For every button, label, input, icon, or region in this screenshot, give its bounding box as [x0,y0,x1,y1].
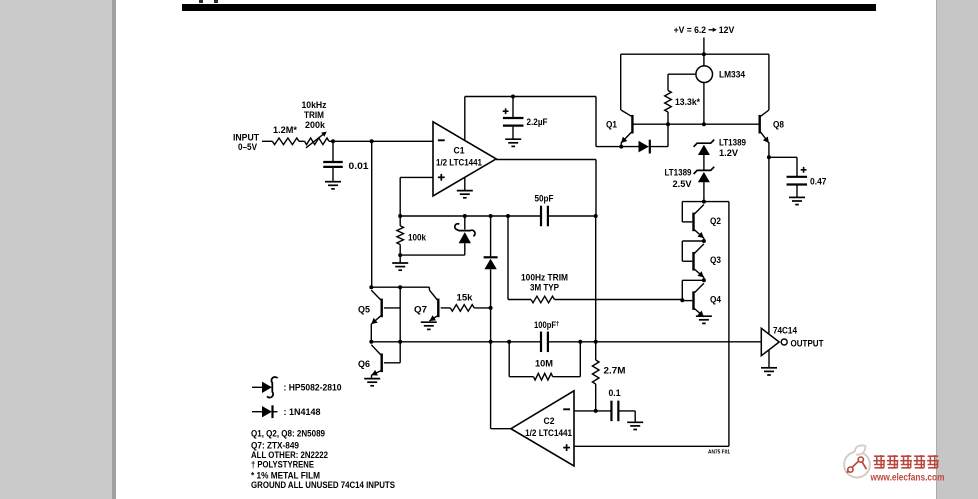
node 13.3k/base-rail junction [666,122,670,126]
capacitor 0.1 plates [611,401,618,422]
ground of Q7 [421,322,437,329]
ground of 0.1 [627,422,643,429]
wire 74C14 ground stub [768,350,770,368]
label 100k [408,232,427,242]
wire 100k top lead [399,216,401,226]
svg-text:C2: C2 [544,416,555,426]
node summing bus / C2 column junction [489,340,493,344]
svg-text:1/2 LTC1441: 1/2 LTC1441 [436,158,482,168]
node 10M left junction [507,340,511,344]
label AN75 F01 [708,450,730,456]
svg-text:0–5V: 0–5V [238,142,257,152]
ground of 74C14 [761,368,777,375]
resistor 13.3k* [665,91,672,113]
label 200k [305,120,326,130]
wire Q6 emitter stub [371,375,373,378]
resistor 1.2M* [272,138,299,145]
node bias bus left junction [398,214,402,218]
wire Q2 emitter to next [703,238,705,241]
resistor 100k [397,226,404,245]
node 0.01 junction [331,139,335,143]
watermark logo circle [844,445,870,477]
svg-text:2.2µF: 2.2µF [527,117,548,127]
ground of 0.01 [325,182,341,189]
svg-text:0.47: 0.47 [810,176,827,186]
wire 200k to C1 minus [329,140,433,142]
label 10M [535,359,553,369]
svg-text:10M: 10M [535,359,553,369]
wire 3M line left [508,299,531,301]
label Q5 [358,304,370,314]
wire C1-output column middle segment [595,216,597,342]
diode D3 1N4148 [484,257,498,269]
wire C2 output [491,428,511,430]
wire C1 ground stub [464,97,466,142]
wire 100k to D2 bottom [400,243,465,255]
wire 13.3k top lead [667,74,669,90]
label Q4 [710,295,721,305]
svg-text:3M TYP: 3M TYP [530,283,559,293]
node LM334/zener junction [702,122,706,126]
wire 2.2uF bottom lead [512,127,514,140]
transistor Q2 (diode-connected) [682,202,704,239]
wire 15k to D3 column [474,307,490,309]
svg-text:15k: 15k [457,293,474,303]
wire 3M column [507,216,509,300]
node input/Q5 junction [369,285,373,289]
svg-text:13.3k*: 13.3k* [675,97,700,107]
ground of C1 [457,191,473,198]
label + of 0.47 [801,167,807,173]
current source U2 LM334 body [696,66,713,83]
svg-text:LT1389: LT1389 [719,137,746,147]
header black rule [182,4,876,11]
label C2 plus input [563,444,570,451]
label Q6 [358,359,370,369]
node 2.7M column junction [594,340,598,344]
label 50pF [535,193,554,203]
svg-text:2.7M: 2.7M [604,366,626,376]
capacitor 0.01 plates [323,162,343,167]
page right edge line [936,0,937,499]
label OUTPUT [791,338,824,348]
note text: GROUND ALL UNUSED 74C14 INPUTS [251,480,395,490]
wire Q5 collector rail [371,286,429,288]
svg-text:Q8: Q8 [773,119,784,129]
label 2.5V [673,179,692,189]
label 0.47 [810,176,827,186]
wire stack top to right column [704,201,729,203]
wire +V stub [703,38,705,55]
node D2 junction [463,214,467,218]
wire bias bus left segment [400,215,541,217]
capacitor 100pF plates [541,332,548,353]
svg-text:†: † [556,320,560,327]
diode D1 HP5082-2810 [639,140,650,154]
svg-text:1.2M*: 1.2M* [273,125,298,135]
node input column junction [370,139,374,143]
wire summing bus left [371,341,541,343]
wire 10M loop [509,342,580,377]
label 10kHz [302,100,327,110]
zener Z1 LT1389 1.2V [694,140,715,155]
transistor Q1 (2N5089) [621,110,632,143]
label C1 plus input [438,174,445,181]
transistor Q5 [371,290,381,324]
svg-text:100Hz TRIM: 100Hz TRIM [521,272,568,282]
label C2 [544,416,555,426]
resistor 10M [534,373,553,380]
svg-text:Q1, Q2, Q8: 2N5089: Q1, Q2, Q8: 2N5089 [251,428,325,438]
node stack top junction [702,200,706,204]
wire 0.47 bottom lead [796,185,798,197]
wire LM334 top lead [703,54,705,66]
wire bias bus right segment [548,215,596,217]
svg-text:2.5V: 2.5V [673,179,692,189]
svg-text:GROUND ALL UNUSED 74C14 INPUTS: GROUND ALL UNUSED 74C14 INPUTS [251,480,395,490]
svg-text:* 1% METAL FILM: * 1% METAL FILM [251,470,320,480]
label 74C14 [773,325,797,335]
svg-text:Q7: ZTX-849: Q7: ZTX-849 [251,440,299,450]
label Q1 [606,119,617,129]
node Q2/Q3 junction [702,239,706,243]
label Q2 [710,216,721,226]
svg-text:10kHz: 10kHz [302,100,327,110]
svg-text:200k: 200k [305,120,326,130]
svg-text:ALL OTHER: 2N2222: ALL OTHER: 2N2222 [251,450,328,460]
svg-text:50pF: 50pF [535,193,554,203]
wire Q5 base lead [384,307,400,309]
wire C1 supply rail [465,96,596,98]
svg-text:† POLYSTYRENE: † POLYSTYRENE [251,459,314,469]
legend label HP5082-2810 [284,383,342,393]
label 0.1 [609,388,621,398]
wire Q6 base lead [384,362,400,364]
wire Q8 collector riser [768,54,770,110]
watermark text www.elecfans.com [870,472,945,483]
label C2 1/2 LTC1441 [525,428,572,438]
label 13.3k* [675,97,700,107]
node 3M column junction [506,214,510,218]
label INPUT [233,132,259,142]
resistor 15k [450,305,474,312]
node summing bus left end [369,340,373,344]
ground of 100k [392,263,408,270]
transistor Q3 (diode-connected) [682,241,704,277]
node 15k junction [489,306,493,310]
note text: Q1, Q2, Q8: 2N5089 [251,428,325,438]
wire 2.7M top lead [595,342,597,360]
wire Q5 emitter to summing bus [370,324,372,342]
label LT1389 (2.5V) line1 [665,167,692,177]
resistor 3M [531,296,555,303]
label TRIM [304,110,324,120]
wire D3 to 15k junction [490,269,492,342]
label C1 [454,146,465,156]
transistor Q6 [371,345,381,376]
note text: Q7: ZTX-849 [251,440,299,450]
node Q1 emitter junction [619,145,623,149]
wire 0.01 bottom lead [332,168,334,182]
svg-text:12V: 12V [719,25,735,35]
note text: * 1% METAL FILM [251,470,320,480]
wire C1 bottom ground stub [464,177,466,190]
wire base rail Q1-Q8 [632,123,759,125]
label 2.7M [604,366,626,376]
potentiometer 200k (10kHz trim) [305,138,330,145]
label 100pF+ [534,320,560,330]
wire 2.7M bottom lead [595,384,597,411]
label C1 minus input [438,139,445,141]
net +V supply label [674,25,735,35]
svg-text:1/2 LTC1441: 1/2 LTC1441 [525,428,572,438]
transistor Q7 (ZTX-849) [429,290,438,321]
wire C1 plus input [400,177,433,216]
svg-text:0.1: 0.1 [609,388,621,398]
legend label 1N4148 [284,407,321,417]
svg-text:www.elecfans.com: www.elecfans.com [870,472,945,483]
wire 3M line right [555,299,683,301]
wire C2 output column [490,342,492,429]
svg-text:OUTPUT: OUTPUT [791,338,824,348]
wire Q7 base lead [441,307,451,309]
gate U3 74C14 body [761,328,787,355]
wire to 0.47 cap [769,157,797,176]
wire C1 output [496,160,596,216]
note text: † POLYSTYRENE [251,459,314,469]
label 3M TYP [530,283,559,293]
wire top rail [621,53,769,55]
node top-rail/LM334 junction [702,52,706,56]
capacitor 2.2uF plates [503,118,524,126]
wire Q1 collector riser [620,54,622,110]
transistor Q4 (diode-connected) [682,280,704,317]
comparator C2 body [511,391,574,466]
svg-text:100k: 100k [408,232,427,242]
label Q7 [414,304,427,314]
legend diode symbol 1N4148 [262,405,278,418]
label Q3 [710,255,721,265]
wire 100k ground stub [399,255,401,263]
legend diode symbol HP5082-2810 [262,377,278,398]
label C1 1/2 LTC1441 [436,158,482,168]
node Q4 base / 3M junction [680,298,684,302]
wire right column (to C2 +) [728,202,730,447]
svg-text:74C14: 74C14 [773,325,797,335]
svg-text:Q6: Q6 [358,359,370,369]
wire 13.3k bottom lead [667,112,669,147]
wire Q5 base column [399,287,401,363]
svg-text:INPUT: INPUT [233,132,259,142]
svg-text:Q4: Q4 [710,295,721,305]
zener Z2 LT1389 2.5V [694,167,715,182]
wire D3 top lead [490,216,492,257]
label LM334 [719,69,745,79]
legend wire (HP diode) [252,386,262,388]
svg-text:LM334: LM334 [719,69,745,79]
svg-text:100pF: 100pF [534,320,556,330]
ground of Q6 [364,379,380,386]
node 100k bottom junction [398,253,402,257]
ground of Q4 [696,316,712,323]
page left edge shadow [112,0,116,499]
resistor 2.7M [592,360,599,384]
wire Q7 collector stub [428,287,430,290]
node Q3/Q4 junction [702,278,706,282]
wire input stub [262,140,272,142]
svg-text:Q5: Q5 [358,304,370,314]
wire Z2 to stack node [703,182,705,201]
label 0.01 [349,161,369,171]
transistor Q8 (2N5089) [760,110,769,143]
svg-text:+V = 6.2: +V = 6.2 [674,25,707,35]
label LT1389 (1.2V) line1 [719,137,746,147]
label 1.2V [719,148,738,158]
node Q5Q6 base / bus junction [398,340,402,344]
svg-text:: HP5082-2810: : HP5082-2810 [284,383,342,393]
wire 0.01 top lead [332,141,334,161]
right margin strip [937,0,978,499]
node 2.2uF junction [511,95,515,99]
watermark logo circuit trace [847,457,867,473]
svg-text:LT1389: LT1389 [665,167,692,177]
svg-text:: 1N4148: : 1N4148 [284,407,321,417]
label C2 minus input [563,408,570,410]
wire D1 cathode to 13.3k column [650,146,668,148]
wire 100k bottom lead [399,245,401,256]
node 10M right junction [578,340,582,344]
node Q8 emitter / 0.47 junction [767,155,771,159]
wire 0.1 to ground [618,411,635,422]
ground of 0.47 [789,197,805,204]
wire C1 supply rail corner to diode row [596,97,639,147]
label 0-5V [238,142,257,152]
note text: ALL OTHER: 2N2222 [251,450,328,460]
svg-text:C1: C1 [454,146,465,156]
wire Q1 emitter stub [620,143,622,147]
svg-text:Q2: Q2 [710,216,721,226]
wire input column [371,141,373,287]
wire summing bus right [548,341,761,343]
wire LM334 to 13.3k [668,73,696,75]
label Q8 [773,119,784,129]
label + of 2.2uF [503,108,509,114]
left margin strip [0,0,112,499]
svg-text:TRIM: TRIM [304,110,324,120]
wire C2 + input line [574,445,729,447]
legend wire (1N4148) [252,411,262,413]
watermark text 电子发烧友 (stylized strokes) [874,455,939,469]
wire Q8 emitter column [768,142,770,333]
label 100Hz TRIM [521,272,568,282]
wire D2 top lead [464,216,466,230]
label 2.2uF [527,117,548,127]
cropped header text remnant 2 [214,0,218,3]
wire Q3 emitter to next [703,277,705,280]
svg-text:Q7: Q7 [414,304,427,314]
node C1-output column / bus junction [594,214,598,218]
svg-text:Q3: Q3 [710,255,721,265]
cropped header text remnant 1 [199,0,203,3]
wire between 1.2M and 200k [299,140,305,142]
capacitor 50pF plates [541,206,548,227]
diode D2 HP5082-2810 [455,224,475,243]
label 15k [457,293,474,303]
node C2 minus junction [594,409,598,413]
wire LM334 bottom lead [703,83,705,125]
comparator C1 body [433,122,496,196]
node D3 junction [489,214,493,218]
svg-text:Q1: Q1 [606,119,617,129]
wire Q4 emitter stub [703,315,705,318]
capacitor 0.47 plates [787,177,808,185]
svg-text:1.2V: 1.2V [719,148,738,158]
node Q5 base-column junction [398,285,402,289]
trim arrow of 200k [306,132,327,148]
wire C2 minus line [574,410,611,412]
wire 2.2uF top lead [512,97,514,118]
svg-text:0.01: 0.01 [349,161,369,171]
ground of 2.2uF [505,139,521,146]
wire between zeners [703,155,705,170]
svg-text:AN75 F01: AN75 F01 [708,450,730,456]
label 1.2M* [273,125,298,135]
